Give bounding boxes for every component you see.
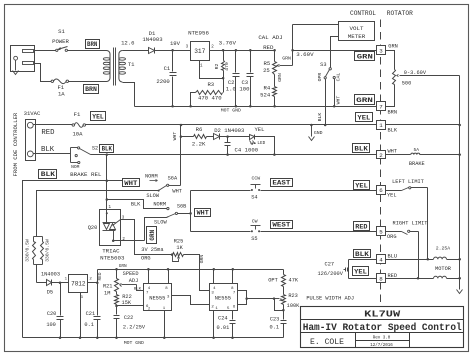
svg-text:R3: R3 bbox=[207, 81, 214, 88]
label GRN box rotated bbox=[147, 227, 157, 244]
svg-text:5: 5 bbox=[379, 229, 383, 236]
svg-text:EAST: EAST bbox=[272, 180, 290, 187]
wire direction common bus bbox=[190, 191, 192, 232]
wire YEL line to terminal 1 bbox=[86, 124, 377, 126]
svg-text:25: 25 bbox=[263, 67, 270, 74]
svg-text:CW: CW bbox=[252, 218, 258, 224]
wire 7812 output node bbox=[88, 282, 98, 284]
svg-text:YEL: YEL bbox=[355, 182, 368, 189]
resistor R6 2.2K bbox=[181, 136, 194, 138]
svg-text:BLU: BLU bbox=[388, 254, 398, 260]
diode D2 1N4003 bbox=[207, 136, 214, 138]
transformer T1 secondary winding bbox=[119, 51, 123, 83]
svg-text:FROM CDE CONTROLLER: FROM CDE CONTROLLER bbox=[12, 112, 19, 176]
svg-text:CONTROL: CONTROL bbox=[350, 10, 376, 17]
wire 3.60V to terminal 3 bbox=[293, 50, 377, 52]
svg-text:S5: S5 bbox=[251, 236, 257, 242]
label WHT box direction bbox=[195, 209, 211, 217]
svg-text:19V: 19V bbox=[170, 40, 181, 47]
wire LED to brake line bbox=[255, 137, 275, 155]
svg-text:OPR: OPR bbox=[317, 73, 323, 82]
svg-text:C20: C20 bbox=[47, 311, 57, 317]
svg-text:C1: C1 bbox=[164, 65, 171, 72]
capacitor C3 100 bbox=[249, 49, 252, 52]
svg-text:RIGHT LIMIT: RIGHT LIMIT bbox=[393, 220, 428, 226]
svg-text:R4: R4 bbox=[263, 85, 270, 92]
svg-text:S4: S4 bbox=[251, 195, 257, 201]
potentiometer 500 feedback bbox=[386, 51, 395, 70]
regulator ADJ pin wire bbox=[200, 61, 224, 79]
svg-text:BLK: BLK bbox=[134, 288, 142, 292]
svg-text:2.2/25V: 2.2/25V bbox=[123, 325, 146, 331]
terminal 6 bbox=[377, 186, 386, 195]
resistor 47K OPT bbox=[283, 270, 285, 275]
label GRN box at terminal 7 bbox=[355, 95, 375, 105]
resistor R22 15K bbox=[116, 292, 118, 295]
label BLK box at terminal 4 bbox=[354, 250, 371, 258]
svg-text:D5: D5 bbox=[47, 290, 53, 296]
label BRN box bottom bbox=[84, 85, 99, 94]
wire NE555-1 pin8 to rail bbox=[168, 270, 170, 284]
svg-text:GRN: GRN bbox=[277, 73, 283, 82]
svg-text:500: 500 bbox=[402, 80, 412, 86]
svg-text:RED: RED bbox=[263, 44, 274, 51]
svg-text:T1: T1 bbox=[128, 61, 135, 68]
wire S2 output down to TRIAC bbox=[106, 155, 108, 210]
svg-text:1N4003: 1N4003 bbox=[142, 36, 162, 43]
svg-text:R6: R6 bbox=[196, 126, 203, 133]
wire C27 bracket to terminals 4/8 bbox=[348, 260, 350, 279]
svg-text:ORG: ORG bbox=[387, 234, 397, 240]
svg-text:S2: S2 bbox=[92, 145, 98, 151]
svg-text:SLOW: SLOW bbox=[146, 193, 160, 199]
svg-text:WHT: WHT bbox=[197, 210, 209, 217]
svg-text:524: 524 bbox=[260, 92, 271, 99]
svg-text:GRN: GRN bbox=[356, 97, 373, 104]
svg-text:Rev 3.0: Rev 3.0 bbox=[373, 337, 391, 341]
ground symbol GND on YEL line bbox=[311, 125, 313, 137]
capacitor C21 0.1 bbox=[97, 283, 99, 316]
title block bbox=[301, 307, 464, 348]
svg-text:GND: GND bbox=[314, 130, 323, 136]
svg-text:RED: RED bbox=[41, 129, 55, 137]
resistor R3 470 470 bbox=[223, 79, 225, 93]
svg-text:R23: R23 bbox=[288, 293, 298, 299]
terminal 3 bbox=[377, 46, 386, 55]
wire D5 to 7812 bbox=[52, 282, 69, 284]
capacitor C23 0.1 bbox=[283, 311, 285, 320]
svg-text:E. COLE: E. COLE bbox=[310, 338, 344, 347]
wire brake rel row bbox=[23, 181, 123, 338]
svg-text:GRN: GRN bbox=[199, 255, 205, 264]
fuse F1 10A bbox=[72, 124, 74, 126]
svg-text:R25: R25 bbox=[174, 239, 184, 245]
svg-text:0.1: 0.1 bbox=[84, 322, 94, 328]
wire WEST to terminal 5 bbox=[261, 231, 377, 233]
fuse F1 1A bbox=[51, 80, 53, 82]
transformer T1 core bbox=[113, 48, 115, 86]
wire RED row with motor winding bbox=[386, 278, 434, 280]
rheostat R25 1K bbox=[171, 253, 174, 256]
svg-text:NE555: NE555 bbox=[149, 295, 165, 301]
svg-text:WHT: WHT bbox=[172, 188, 182, 194]
capacitor C4 1000 bbox=[220, 136, 250, 138]
wire T1 secondary bottom to ground rail bbox=[123, 83, 135, 107]
label YEL box at terminal 8 bbox=[353, 267, 369, 276]
svg-text:100K: 100K bbox=[287, 303, 301, 309]
svg-text:10A: 10A bbox=[72, 131, 83, 138]
label EAST box bbox=[271, 179, 293, 187]
svg-text:4: 4 bbox=[379, 256, 383, 263]
svg-text:MOT GND: MOT GND bbox=[124, 340, 144, 346]
svg-text:SLOW: SLOW bbox=[154, 220, 168, 226]
wire WHT brake line S2 to terminal 2 bbox=[91, 154, 377, 156]
svg-text:BRN: BRN bbox=[85, 86, 97, 93]
transformer T1 primary winding bbox=[107, 51, 111, 82]
wire S6B SLOW to TRIAC MT2 bbox=[145, 217, 169, 241]
svg-text:NTE5603: NTE5603 bbox=[100, 254, 125, 261]
svg-text:1.0: 1.0 bbox=[226, 86, 237, 93]
wire EAST row bbox=[191, 190, 251, 192]
terminal 2 bbox=[377, 151, 386, 159]
wire NE555-2 pins 7-6 loop bbox=[238, 291, 247, 305]
svg-text:C22: C22 bbox=[124, 315, 134, 321]
svg-text:WHT: WHT bbox=[388, 149, 398, 155]
svg-text:2: 2 bbox=[379, 152, 383, 159]
svg-text:1K: 1K bbox=[176, 245, 183, 251]
capacitor C20 100 bbox=[60, 283, 62, 316]
svg-text:0.1: 0.1 bbox=[270, 325, 280, 331]
svg-text:BRN: BRN bbox=[388, 109, 398, 115]
svg-text:3.60V: 3.60V bbox=[296, 51, 314, 58]
svg-text:2.2K: 2.2K bbox=[192, 140, 206, 147]
wire D1 to regulator bbox=[155, 50, 191, 52]
wire plug to S1 bbox=[35, 50, 56, 52]
label YEL box at terminal 6 bbox=[354, 181, 370, 190]
wire R23 wiper bbox=[247, 298, 275, 300]
svg-text:CAL: CAL bbox=[336, 73, 342, 82]
wire regulator output 3.76V rail bbox=[210, 50, 275, 52]
wire wiper riser to volt meter bbox=[292, 25, 294, 66]
svg-text:YEL: YEL bbox=[354, 268, 367, 275]
svg-text:3: 3 bbox=[379, 48, 383, 55]
wire EAST to terminal 6 bbox=[261, 190, 377, 192]
ground symbol rotator bus bbox=[457, 290, 463, 294]
node 19V junction bbox=[171, 49, 174, 52]
wire R22 to NE555-1 pins 2/6 bbox=[117, 305, 144, 307]
label BLK box at S2 bbox=[100, 145, 114, 153]
svg-text:C23: C23 bbox=[270, 316, 280, 322]
resistors 330/0.5W pair bbox=[34, 236, 43, 238]
svg-text:ADJ: ADJ bbox=[129, 278, 139, 284]
wire S6B common to direction switches bbox=[178, 213, 191, 215]
capacitor C1 2200 bbox=[172, 51, 174, 72]
svg-text:C27: C27 bbox=[325, 261, 335, 267]
label BLK box lower left bbox=[39, 170, 57, 179]
svg-text:47K: 47K bbox=[289, 277, 299, 283]
label WEST box bbox=[271, 221, 293, 229]
wire R25 to NE555-2 pin3 GRN bbox=[184, 255, 210, 291]
ground rail MOT GND bbox=[135, 106, 377, 108]
svg-text:BLK: BLK bbox=[102, 146, 113, 153]
svg-text:WHT: WHT bbox=[172, 132, 178, 141]
svg-text:CCW: CCW bbox=[251, 176, 260, 182]
svg-text:2: 2 bbox=[148, 307, 150, 311]
triac gate wire bbox=[113, 220, 121, 226]
potentiometer R23 100K bbox=[283, 287, 285, 295]
svg-text:SPEED: SPEED bbox=[123, 271, 139, 277]
wire plug to fuse F1 bbox=[35, 64, 52, 82]
svg-text:C4 1000: C4 1000 bbox=[235, 147, 259, 154]
wire RED 31VAC to fuse bbox=[34, 124, 73, 126]
wire 12V GRN rail bbox=[97, 270, 99, 283]
wire S3 OPR to YEL line bbox=[325, 79, 327, 125]
svg-text:LEFT LIMIT: LEFT LIMIT bbox=[392, 179, 424, 185]
svg-text:1N4003: 1N4003 bbox=[41, 271, 60, 277]
svg-text:BRN: BRN bbox=[87, 41, 98, 48]
wire T1 secondary to D1 bbox=[123, 50, 149, 52]
svg-text:GRN: GRN bbox=[357, 54, 373, 61]
R5 wiper wire GRN bbox=[280, 65, 293, 67]
capacitor C2 1.0 bbox=[235, 49, 238, 52]
svg-text:BLK: BLK bbox=[41, 146, 55, 154]
svg-text:470 470: 470 470 bbox=[198, 94, 222, 101]
capacitor C24 0.01 bbox=[232, 311, 234, 320]
svg-text:MOT GND: MOT GND bbox=[221, 107, 241, 113]
svg-text:METER: METER bbox=[348, 33, 366, 40]
svg-text:470: 470 bbox=[224, 62, 230, 71]
wire terminal 1 to bus bbox=[386, 124, 460, 126]
svg-text:BLK: BLK bbox=[354, 146, 368, 153]
wire BLU row with motor winding 2.25A bbox=[386, 259, 434, 261]
svg-text:7812: 7812 bbox=[71, 280, 86, 287]
svg-text:YEL: YEL bbox=[254, 126, 264, 133]
svg-text:8: 8 bbox=[379, 276, 383, 283]
svg-text:BLK: BLK bbox=[131, 201, 141, 207]
volt meter M1 bbox=[339, 22, 375, 41]
bottom ground rail MOT GND bbox=[23, 337, 284, 339]
capacitor C22 2.2/25V bbox=[116, 306, 118, 315]
timer U4 NE555 bbox=[210, 284, 238, 311]
svg-text:126/200V: 126/200V bbox=[317, 271, 343, 277]
plug ground symbol bbox=[15, 61, 17, 71]
svg-text:3.76V: 3.76V bbox=[219, 40, 237, 47]
svg-text:R2: R2 bbox=[214, 64, 220, 70]
regulator U2 7812 bbox=[69, 275, 88, 293]
svg-text:YEL: YEL bbox=[357, 115, 370, 122]
svg-text:YEL: YEL bbox=[387, 193, 397, 199]
wire right limit to RED row bbox=[418, 232, 420, 279]
svg-text:6: 6 bbox=[379, 187, 383, 194]
wire WEST row bbox=[191, 231, 251, 233]
svg-text:OPT: OPT bbox=[268, 277, 278, 283]
wire S3 CAL WHT to ground rail bbox=[334, 79, 336, 107]
svg-text:BRAKE: BRAKE bbox=[409, 161, 425, 167]
terminal 1 bbox=[377, 121, 386, 130]
terminal 7 bbox=[377, 102, 386, 111]
svg-text:S3: S3 bbox=[320, 62, 326, 68]
svg-text:Ham-IV Rotator Speed Control: Ham-IV Rotator Speed Control bbox=[303, 322, 462, 334]
svg-text:GRN: GRN bbox=[282, 56, 291, 62]
wire fuse to T1 primary bottom bbox=[69, 81, 107, 83]
label WHT box brake rel bbox=[123, 179, 140, 187]
label YEL box at terminal 1 bbox=[356, 113, 373, 122]
svg-text:100: 100 bbox=[46, 322, 56, 328]
wire NE555-2 pin8 to rail bbox=[232, 270, 234, 284]
svg-text:Q20: Q20 bbox=[88, 225, 98, 231]
brake solenoid 5A bbox=[386, 154, 411, 156]
svg-text:R22: R22 bbox=[122, 294, 132, 300]
svg-text:330/0.5W: 330/0.5W bbox=[25, 239, 31, 262]
svg-text:GRN: GRN bbox=[119, 264, 127, 269]
terminal 5 bbox=[377, 227, 386, 236]
potentiometer R5 25 bbox=[273, 49, 276, 52]
svg-text:31VAC: 31VAC bbox=[24, 110, 41, 117]
svg-text:BLK: BLK bbox=[388, 128, 398, 134]
dashed control/rotator divider bbox=[380, 20, 382, 303]
wire NE555-1 pin3 to NE555-2 pin2 bbox=[172, 296, 210, 305]
svg-text:VOLT: VOLT bbox=[350, 25, 364, 32]
svg-text:F1: F1 bbox=[74, 111, 81, 118]
svg-text:2200: 2200 bbox=[156, 78, 170, 85]
svg-text:BRAKE REL: BRAKE REL bbox=[70, 171, 102, 178]
pot 500 wiper wire to bus bbox=[400, 75, 460, 77]
svg-text:WHT: WHT bbox=[124, 180, 137, 187]
svg-text:MOTOR: MOTOR bbox=[435, 266, 452, 272]
label GRN box at terminal 3 bbox=[355, 52, 375, 61]
svg-text:1M: 1M bbox=[104, 290, 110, 296]
wire 330 pair to D5 bbox=[36, 265, 38, 283]
svg-text:NOM: NOM bbox=[71, 164, 80, 170]
svg-text:S6A: S6A bbox=[168, 176, 178, 182]
svg-text:NTE956: NTE956 bbox=[188, 30, 209, 37]
svg-text:12.6: 12.6 bbox=[121, 40, 134, 47]
resistor R4 524 bbox=[274, 75, 276, 87]
label RED box at terminal 5 bbox=[354, 222, 370, 231]
wire 7812 ground pin bbox=[80, 293, 82, 338]
node 3.60V tap bbox=[291, 49, 294, 52]
svg-text:S6B: S6B bbox=[177, 204, 187, 210]
switch S6A NORM/SLOW bbox=[158, 190, 160, 192]
wire wiper tie to R23 bottom bbox=[275, 299, 284, 311]
svg-text:BLK: BLK bbox=[355, 251, 369, 258]
wire BLK S2-drop to S6B NORM bbox=[107, 200, 167, 209]
switch S2 BRAKE REL bbox=[70, 148, 72, 163]
svg-text:RED: RED bbox=[355, 224, 367, 231]
wire NE555-1 pin1 to ground bbox=[164, 311, 166, 338]
triac Q20 NTE5603 bbox=[100, 210, 121, 246]
label BRN box top bbox=[86, 40, 100, 49]
svg-text:WEST: WEST bbox=[272, 222, 290, 229]
svg-text:PULSE WIDTH ADJ: PULSE WIDTH ADJ bbox=[306, 296, 354, 302]
AC plug J1 bbox=[11, 46, 35, 72]
svg-text:0.01: 0.01 bbox=[217, 325, 230, 331]
svg-text:KL7UW: KL7UW bbox=[364, 309, 401, 319]
svg-text:7: 7 bbox=[379, 103, 383, 110]
svg-text:GRN: GRN bbox=[388, 44, 398, 50]
svg-text:12/7/2016: 12/7/2016 bbox=[370, 343, 393, 348]
timer U3 NE555 bbox=[144, 284, 172, 311]
terminal 8 bbox=[377, 274, 386, 283]
label YEL box bbox=[91, 112, 106, 121]
svg-text:S1: S1 bbox=[58, 28, 65, 35]
svg-text:ORG: ORG bbox=[141, 255, 151, 261]
svg-text:C24: C24 bbox=[218, 316, 228, 322]
resistor R2 470 bbox=[222, 49, 225, 52]
svg-text:317: 317 bbox=[194, 48, 205, 55]
svg-text:BLK: BLK bbox=[317, 113, 323, 122]
wire left limit to BLU row bbox=[427, 188, 429, 260]
svg-text:5A: 5A bbox=[413, 147, 419, 153]
svg-text:YEL: YEL bbox=[92, 114, 103, 121]
svg-text:NE555: NE555 bbox=[215, 295, 231, 301]
svg-text:CAL ADJ: CAL ADJ bbox=[258, 34, 282, 41]
svg-text:NORM: NORM bbox=[153, 201, 166, 207]
svg-text:NORM: NORM bbox=[145, 174, 158, 180]
svg-text:WHT: WHT bbox=[336, 96, 342, 105]
rotator common bus bbox=[459, 76, 461, 290]
svg-text:BLK: BLK bbox=[41, 171, 56, 178]
svg-text:1A: 1A bbox=[58, 91, 65, 98]
svg-text:TRIAC: TRIAC bbox=[102, 247, 120, 254]
wire NE555-2 pin1 to ground bbox=[213, 311, 215, 338]
svg-text:D2 1N4003: D2 1N4003 bbox=[214, 127, 244, 134]
svg-text:POWER: POWER bbox=[52, 38, 69, 45]
svg-text:3V 25ma: 3V 25ma bbox=[141, 247, 163, 253]
svg-text:ROTATOR: ROTATOR bbox=[387, 10, 413, 17]
svg-text:330/0.5W: 330/0.5W bbox=[44, 239, 50, 262]
svg-text:2.25A: 2.25A bbox=[436, 246, 451, 252]
wire NE555-1 pin4 to rail bbox=[148, 270, 150, 284]
wire slow row to 330 resistors bbox=[37, 191, 159, 237]
wire S1 to T1 primary bbox=[68, 50, 107, 52]
svg-text:R21: R21 bbox=[103, 284, 113, 290]
R21 wiper wire BLK bbox=[122, 284, 137, 286]
svg-text:RED: RED bbox=[98, 272, 103, 280]
wire volt meter to S3 bbox=[331, 37, 339, 68]
wire BLK 31VAC to S2 bbox=[34, 153, 71, 155]
wire WHT riser S6A to YEL line bbox=[180, 125, 182, 186]
svg-text:100: 100 bbox=[239, 86, 250, 93]
wire NE555-2 pin4 to rail bbox=[213, 270, 215, 284]
svg-text:C21: C21 bbox=[86, 311, 96, 317]
label BLK box at terminal 2 bbox=[353, 144, 370, 153]
svg-text:GRN: GRN bbox=[149, 229, 156, 240]
svg-text:1: 1 bbox=[379, 122, 383, 129]
terminal 4 bbox=[377, 255, 386, 264]
svg-text:LED: LED bbox=[257, 141, 265, 146]
